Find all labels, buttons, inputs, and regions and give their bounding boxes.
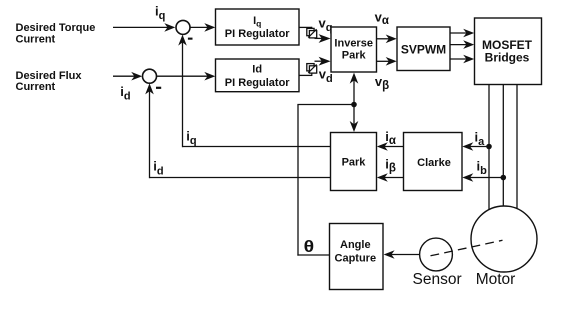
label: Desired Torque Current — [16, 22, 96, 45]
wire: torque reference input — [113, 23, 175, 32]
junction dot: theta node — [351, 102, 357, 108]
svg-text:Desired Torque: Desired Torque — [16, 22, 96, 34]
wire: flux reference input — [113, 72, 142, 81]
wire: valpha to SVPWM — [377, 35, 397, 44]
wires: SVPWM to MOSFET Bridges (3 PWM lines) — [450, 29, 474, 64]
wire: theta down into Park — [350, 105, 359, 133]
wire: ia to Clarke — [462, 142, 489, 151]
wire: id feedback Park to S2 — [145, 83, 330, 178]
minus sign at S1 — [188, 38, 193, 40]
symbol: vd limiter (overlapping squares) — [307, 64, 317, 74]
block: SVPWM U4 — [397, 27, 450, 71]
wires: three phase lines MOSFET to Motor — [489, 85, 517, 210]
block: Inverse Park U3 — [331, 27, 377, 72]
dashed shaft line Sensor-Motor — [431, 240, 503, 256]
svg-text:Motor: Motor — [476, 271, 516, 288]
block: MOSFET Bridges U5 — [475, 18, 542, 85]
wire: iq feedback Park to S1 — [178, 35, 330, 148]
wire: S1 to Iq PI Regulator — [190, 23, 215, 32]
svg-text:θ: θ — [304, 238, 315, 256]
wire: ib to Clarke — [462, 173, 503, 182]
wire: ibeta Clarke to Park — [377, 173, 404, 182]
wire: ialpha Clarke to Park — [377, 142, 404, 151]
label: Desired Flux Current — [16, 70, 83, 93]
symbol: vq limiter (overlapping squares) — [307, 28, 317, 38]
wire: vd into Inverse Park — [315, 57, 331, 66]
junction dot: ia tap — [486, 144, 492, 150]
block: Clarke U6 — [404, 133, 463, 191]
svg-text:Angle: Angle — [340, 239, 371, 251]
wire: S2 to Id PI Regulator — [157, 72, 216, 81]
svg-text:PI Regulator: PI Regulator — [225, 77, 291, 89]
svg-text:Clarke: Clarke — [417, 157, 451, 169]
wire: theta up into Inverse Park — [350, 73, 359, 105]
block: Angle Capture U8 — [330, 224, 384, 290]
svg-text:Inverse: Inverse — [334, 37, 373, 49]
wire: Iq PI Regulator output — [299, 27, 312, 30]
svg-text:Sensor: Sensor — [413, 271, 462, 288]
summing junction S2 (flux) — [143, 69, 157, 83]
svg-text:Capture: Capture — [335, 252, 377, 264]
svg-text:Id: Id — [252, 63, 262, 75]
sensor circle — [420, 238, 453, 271]
wire: Sensor to Angle Capture — [384, 250, 420, 259]
svg-text:SVPWM: SVPWM — [401, 43, 446, 57]
wire: Id PI Regulator output — [299, 72, 312, 76]
wire: vq into Inverse Park — [315, 34, 331, 43]
block: Park U7 — [331, 133, 377, 191]
wire: vbeta to SVPWM — [377, 57, 397, 66]
svg-text:Desired Flux: Desired Flux — [16, 70, 83, 82]
summing junction S1 (torque) — [176, 20, 190, 34]
svg-text:PI Regulator: PI Regulator — [225, 28, 291, 40]
svg-text:Park: Park — [342, 49, 367, 61]
svg-text:Bridges: Bridges — [485, 50, 530, 64]
svg-text:Park: Park — [342, 156, 367, 168]
svg-text:Current: Current — [16, 33, 56, 45]
svg-text:Current: Current — [16, 81, 56, 93]
wire: theta net from Angle Capture — [297, 105, 354, 256]
minus sign at S2 — [156, 87, 161, 89]
junction dot: ib tap — [501, 175, 507, 181]
block: Iq PI Regulator U1 — [216, 9, 300, 45]
motor circle — [471, 206, 537, 272]
block: Id PI Regulator U2 — [216, 59, 300, 92]
